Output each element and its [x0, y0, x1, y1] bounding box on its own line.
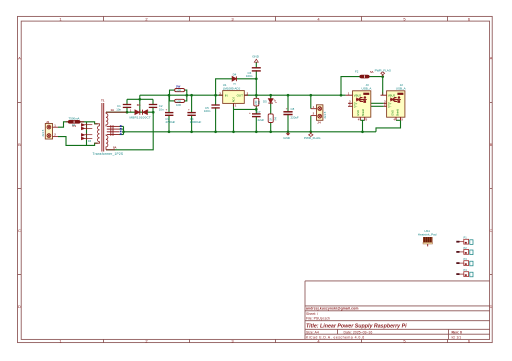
svg-text:B: B: [18, 142, 21, 147]
svg-text:+: +: [249, 111, 251, 115]
svg-text:10R: 10R: [176, 89, 181, 93]
svg-text:VBUS: VBUS: [354, 93, 362, 97]
svg-text:GND: GND: [356, 110, 360, 116]
svg-text:PWR_FLAG: PWR_FLAG: [304, 136, 321, 140]
wire secondary top to D1 row: [106, 111, 153, 113]
resistor R1 (ballast top): [175, 89, 185, 93]
capacitor C7: [252, 114, 261, 117]
svg-text:Shield: Shield: [395, 108, 399, 116]
svg-text:File: PSUpi.sch: File: PSUpi.sch: [306, 317, 330, 321]
fuse F2: [355, 69, 374, 78]
svg-text:Heatsink_Pad: Heatsink_Pad: [418, 233, 437, 237]
svg-text:T500mA: T500mA: [69, 116, 80, 120]
junction: [361, 130, 364, 133]
junction: [309, 94, 312, 97]
junction: [255, 108, 258, 111]
junction: [185, 94, 188, 97]
secondary tap pins: [107, 125, 120, 127]
svg-text:1A: 1A: [111, 108, 115, 112]
fuse F1: [66, 116, 84, 127]
svg-text:GND: GND: [390, 110, 394, 116]
svg-text:1K: 1K: [269, 117, 272, 120]
svg-text:2x1.5: 2x1.5: [323, 111, 327, 118]
junction: [214, 94, 217, 97]
svg-text:10n: 10n: [116, 108, 121, 112]
wire J4 pin2 column: [310, 116, 312, 132]
junction: [309, 130, 312, 133]
PWR_FLAG bottom: [304, 132, 321, 140]
regulator U1: [219, 83, 249, 107]
svg-text:J1: J1: [46, 120, 50, 124]
wire GND rail: [124, 131, 377, 133]
junction: [381, 75, 384, 78]
svg-text:1N: 1N: [233, 83, 236, 85]
wire D5/R4 column: [270, 95, 272, 132]
svg-text:USB_A: USB_A: [362, 86, 372, 90]
wire J4 pin1 column: [310, 95, 312, 109]
junction: [190, 94, 193, 97]
junction: [255, 77, 258, 80]
wire C8 column: [287, 95, 289, 132]
heatsink HS1: [418, 229, 437, 246]
junction: [122, 130, 125, 133]
cap gap masks: [124, 68, 291, 116]
svg-text:Id: 1/1: Id: 1/1: [452, 336, 462, 340]
svg-text:10000uF: 10000uF: [190, 120, 202, 124]
wire D- between USBs: [371, 105, 384, 107]
wire C1 column: [126, 99, 128, 112]
svg-text:D: D: [489, 304, 492, 309]
connector J4 output terminal: [311, 105, 327, 125]
svg-text:Shield: Shield: [361, 108, 365, 116]
junction: [214, 130, 217, 133]
title block: [305, 281, 490, 340]
svg-text:F2: F2: [355, 69, 359, 73]
junction: [138, 98, 141, 101]
wire C5 / U1 IN column: [215, 95, 217, 132]
svg-text:GND: GND: [283, 136, 291, 140]
capacitor C6: [252, 68, 261, 71]
svg-text:Transformer_1P2S: Transformer_1P2S: [93, 152, 124, 156]
test point TP3: [456, 257, 473, 266]
primary winding: [95, 124, 100, 143]
diode D4 bypass: [232, 76, 236, 81]
svg-text:Size: A4: Size: A4: [306, 331, 319, 335]
svg-text:T1: T1: [101, 99, 105, 103]
svg-text:ADJ: ADJ: [232, 96, 236, 102]
wire R3/C7 column: [255, 95, 257, 132]
svg-text:D1: D1: [137, 103, 141, 107]
junction: [287, 130, 290, 133]
junction: [190, 130, 193, 133]
wire C6 stem: [255, 62, 257, 79]
svg-text:OUT: OUT: [237, 94, 244, 98]
wire ballast resistor parallel loop: [169, 89, 175, 91]
test point TP1: [456, 236, 473, 245]
junction: [168, 130, 171, 133]
svg-text:2W: 2W: [176, 84, 181, 88]
junction: [168, 94, 171, 97]
wire J2 GND tie: [396, 119, 401, 121]
junction: [232, 130, 235, 133]
junction: [255, 94, 258, 97]
USB connector J3: [346, 83, 372, 122]
svg-text:Date: 2025–03–16: Date: 2025–03–16: [344, 331, 373, 335]
resistor R4: [268, 114, 277, 123]
svg-text:D−: D−: [354, 104, 358, 108]
svg-text:PWR_FLAG: PWR_FLAG: [375, 69, 392, 73]
svg-text:A: A: [18, 56, 21, 61]
svg-text:D−: D−: [388, 104, 392, 108]
svg-text:D5: D5: [263, 99, 267, 103]
svg-text:KiCad E.D.A. eeschema 4.0.6: KiCad E.D.A. eeschema 4.0.6: [306, 336, 365, 340]
diode D1 dual schottky: [135, 110, 147, 115]
svg-text:D4: D4: [233, 72, 237, 76]
resistor R3: [254, 98, 261, 106]
svg-text:C: C: [489, 228, 492, 233]
wire ADJ horizontal: [234, 108, 257, 110]
junction: [126, 111, 129, 114]
junction: [340, 94, 343, 97]
connector J1: [41, 120, 58, 139]
svg-text:MBR10100CT: MBR10100CT: [130, 116, 152, 120]
wire C3 column: [168, 95, 170, 132]
wire GND jog to J2: [376, 120, 401, 132]
varistor RV1: [81, 123, 92, 130]
varistor RV2: [81, 133, 92, 140]
svg-text:LM1085-ADJ: LM1085-ADJ: [223, 87, 241, 91]
capacitor C2: [149, 105, 157, 108]
capacitor C4: [187, 113, 195, 116]
junction: [287, 94, 290, 97]
svg-text:+: +: [188, 108, 190, 112]
svg-text:IN: IN: [225, 94, 228, 98]
svg-text:100n: 100n: [246, 74, 253, 78]
wire transformer secondary tie: [123, 126, 125, 134]
resistor R2 (ballast bottom): [175, 99, 185, 103]
wire D1 center tap up: [139, 95, 141, 112]
transformer T1: [95, 103, 127, 152]
junction: [152, 111, 155, 114]
secondary winding bottom: [106, 135, 108, 150]
svg-text:8A: 8A: [113, 145, 117, 149]
wire C2 column: [152, 99, 154, 112]
PWR_FLAG top: [375, 69, 392, 77]
svg-text:D: D: [18, 304, 21, 309]
wire J1 pin2 bottom loop to primary: [58, 137, 98, 146]
junction: [255, 130, 258, 133]
wire fuse F2 branch: [341, 77, 383, 96]
svg-text:GND: GND: [252, 55, 260, 59]
USB connector J2: [381, 83, 406, 122]
junction: [269, 94, 272, 97]
svg-text:C7: C7: [257, 110, 261, 114]
svg-text:2x1.5: 2x1.5: [41, 129, 45, 136]
secondary winding top: [106, 112, 108, 126]
svg-text:Title: Linear Power Supply Ras: Title: Linear Power Supply Raspberry Pi: [306, 324, 407, 330]
LED D5: [268, 99, 276, 103]
svg-text:C: C: [18, 228, 21, 233]
wire D+ between USBs: [371, 102, 384, 104]
svg-text:andrzej.kuszynski@gmail.com: andrzej.kuszynski@gmail.com: [306, 307, 358, 311]
wire TVS vertical: [86, 122, 88, 146]
svg-text:USB_A: USB_A: [396, 86, 406, 90]
svg-text:+: +: [166, 108, 168, 112]
wire C4 column: [191, 95, 193, 132]
svg-text:C8: C8: [291, 107, 295, 111]
usb trident icon: [356, 97, 367, 102]
wire D4 bypass: [216, 79, 257, 95]
GND arrow above C6: [252, 55, 260, 63]
svg-text:A: A: [490, 56, 493, 61]
capacitor C1: [123, 105, 131, 108]
svg-text:VBUS: VBUS: [388, 93, 396, 97]
wire VIN rail: [140, 94, 346, 96]
svg-text:22uF: 22uF: [258, 118, 265, 122]
junction dots: [122, 75, 384, 133]
capacitor C5 100n at U1 IN: [211, 105, 219, 108]
svg-text:Rev: 0: Rev: 0: [452, 331, 463, 335]
svg-text:B: B: [490, 142, 493, 147]
svg-text:5A: 5A: [370, 70, 374, 74]
svg-text:10R: 10R: [176, 99, 181, 103]
wire bottom secondary loop: [106, 112, 153, 150]
svg-text:+: +: [286, 107, 288, 111]
svg-text:10R: 10R: [176, 103, 181, 107]
test point TP4: [456, 268, 473, 277]
svg-text:10n: 10n: [159, 108, 164, 112]
GND symbol bottom: [283, 132, 291, 140]
svg-text:J4: J4: [317, 121, 321, 125]
capacitor C3: [165, 113, 173, 116]
wire J3 GND drop: [360, 119, 364, 121]
svg-text:100n: 100n: [204, 109, 211, 113]
wire J1 pin1 to fuse F1: [58, 122, 98, 127]
wire U1 ADJ column: [233, 103, 235, 131]
svg-text:4700uF: 4700uF: [165, 120, 175, 124]
junction: [269, 130, 272, 133]
svg-text:220uF: 220uF: [291, 116, 299, 120]
capacitor C8: [283, 112, 292, 115]
test point TP2: [456, 246, 473, 255]
wire snubber top loop: [127, 98, 153, 100]
